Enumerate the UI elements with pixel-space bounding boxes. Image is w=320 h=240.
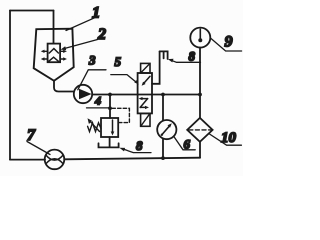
svg-text:2: 2: [97, 26, 106, 43]
wire left pipe: [9, 11, 11, 160]
svg-text:3: 3: [88, 53, 96, 68]
valve 5 top square arrow: [144, 76, 151, 83]
wire pipe into tank: [53, 11, 55, 44]
label 1 leader: [66, 16, 99, 31]
wire main pressure line: [92, 94, 200, 96]
svg-text:8: 8: [189, 49, 196, 64]
svg-text:8: 8: [136, 138, 143, 153]
wire main to filter: [199, 95, 201, 119]
wire valve to electric contact: [152, 51, 160, 83]
adjustment arrow: [90, 121, 100, 131]
label 8 bottom leader: [123, 149, 151, 153]
svg-text:4: 4: [94, 94, 101, 108]
pressure gauge 6: [157, 120, 176, 139]
directional valve 5 body: [138, 73, 152, 113]
label 3 leader: [78, 70, 106, 90]
label 8 top leader: [171, 60, 201, 62]
relief valve (component 4 area): [101, 118, 118, 137]
label 2 leader: [64, 40, 98, 49]
svg-text:7: 7: [27, 127, 36, 144]
pump 3: [74, 85, 92, 103]
node pilot tap: [108, 106, 112, 110]
svg-text:1: 1: [92, 5, 100, 22]
label 4 underline: [87, 107, 111, 109]
node junction main/filter line: [198, 93, 202, 97]
svg-text:5: 5: [115, 54, 122, 69]
wire gauge 9 stub: [199, 47, 201, 94]
solenoid top of valve 5: [141, 63, 150, 73]
svg-text:6: 6: [184, 137, 191, 152]
wire top pipe: [10, 10, 54, 12]
heat exchanger 2 (cooler in tank): [41, 44, 67, 63]
filter 10: [187, 118, 212, 142]
label 5 leader: [111, 75, 137, 83]
pressure gauge 9: [190, 28, 210, 48]
wire branch to relief valve: [109, 95, 111, 119]
tank 1 (reservoir vessel): [34, 29, 74, 81]
wire pump suction: [54, 81, 74, 92]
cooler 7 (heat exchanger in return line): [45, 150, 65, 170]
node junction main/relief: [108, 93, 112, 97]
wire bottom pipe right: [64, 158, 200, 160]
svg-text:10: 10: [221, 130, 237, 146]
wire branch to gauge 6: [162, 95, 164, 121]
solenoid bottom of valve 5: [141, 113, 150, 126]
electric contact (component 8 top): [160, 51, 168, 59]
pilot line (dashed): [112, 108, 129, 122]
svg-text:9: 9: [225, 34, 233, 51]
label 10 leader: [210, 134, 242, 145]
drain tank symbol: [99, 143, 119, 147]
wire gauge 6 to bottom line: [162, 139, 164, 158]
node junction main/gauge6: [161, 93, 165, 97]
spring of relief valve: [88, 123, 101, 132]
wire filter to bottom line: [199, 142, 201, 158]
valve 5 bottom square arrows: [139, 97, 149, 109]
label 9 leader: [211, 39, 242, 52]
node bottom line junction: [161, 156, 165, 160]
label 7 leader: [27, 142, 50, 155]
relief valve drain stem: [109, 137, 111, 147]
label 6 leader: [174, 137, 195, 150]
wire bottom pipe left: [10, 159, 45, 161]
